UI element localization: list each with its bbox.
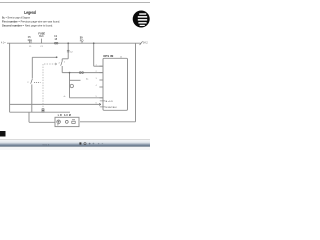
svg-text:10A: 10A [27, 39, 32, 42]
svg-text:Legend: Legend [24, 10, 36, 15]
svg-text:First number = Previous page w: First number = Previous page wire are wa… [2, 19, 60, 23]
svg-text:4: 4 [96, 85, 97, 87]
svg-text:BLK: BLK [39, 35, 44, 38]
svg-text:3: 3 [96, 78, 97, 80]
svg-text:9 8 1 8: 9 8 1 8 [43, 145, 50, 147]
svg-text:B WHT/BLK: B WHT/BLK [106, 107, 118, 109]
svg-text:1: 1 [96, 64, 97, 66]
svg-text:4.1=: 4.1= [1, 43, 6, 45]
svg-text:RD: RD [80, 40, 84, 43]
svg-text:OPS IM: OPS IM [103, 54, 114, 58]
svg-text:A +4 41: A +4 41 [106, 100, 114, 103]
svg-text:5: 5 [96, 96, 97, 98]
svg-text:6: 6 [96, 103, 97, 105]
svg-text:4b: 4b [120, 56, 122, 58]
svg-text:S4.2: S4.2 [143, 42, 148, 44]
svg-text:LR ACM: LR ACM [58, 114, 71, 117]
svg-text:4c: 4c [64, 96, 66, 98]
svg-text:Second number = Next page wire: Second number = Next page wire is found. [2, 23, 53, 27]
svg-text:Bx. = Sheet or page of Diagram: Bx. = Sheet or page of Diagram [2, 15, 31, 19]
svg-text:2: 2 [96, 71, 97, 73]
